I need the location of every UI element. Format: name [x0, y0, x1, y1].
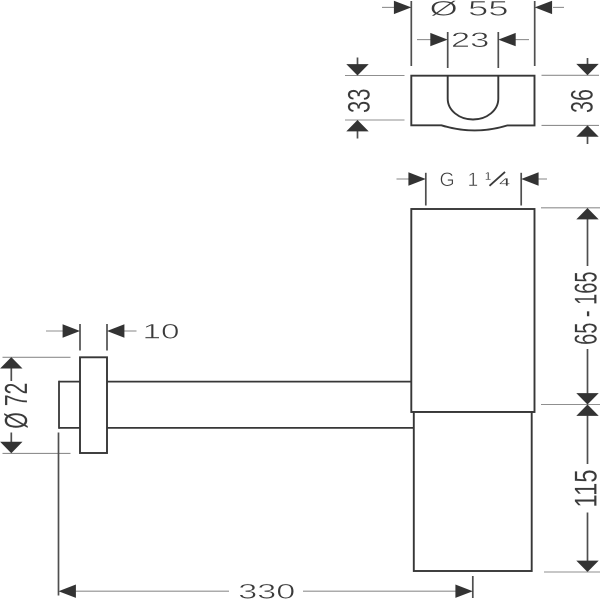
dim D55 arrow right: [535, 1, 552, 14]
dim D10 extension lines: [80, 324, 107, 351]
dim D55 dimension line tails: [382, 6, 564, 8]
dim D330 extension line left: [58, 433, 60, 596]
dim D330 arrow right: [455, 585, 472, 598]
dim D33 arrow bottom: [346, 120, 368, 131]
dim D36 extension lines: [542, 75, 600, 125]
dim D65165 arrow bottom: [576, 393, 598, 404]
dim D55 arrow left: [394, 1, 411, 14]
tube T1 vertical body upper: [411, 209, 534, 412]
dim D115 arrow top: [576, 405, 598, 416]
svg-text:23: 23: [451, 29, 490, 52]
cup C1 trap cup lower: [414, 412, 532, 571]
svg-text:330: 330: [238, 580, 295, 600]
dim D36 arrow bottom: [576, 125, 598, 136]
dim D72 extension lines: [3, 357, 71, 453]
svg-text:1: 1: [485, 171, 492, 183]
dim D115 dimension line segments: [587, 415, 589, 561]
dim D55 extension lines: [411, 1, 534, 66]
dim D65165 arrow top: [576, 208, 598, 219]
svg-text:115: 115: [568, 469, 600, 507]
dim D65165 extension line top: [541, 207, 600, 209]
dim D72 arrow bottom: [0, 442, 22, 453]
dim D10 arrow right: [107, 324, 124, 337]
svg-text:4: 4: [499, 177, 511, 189]
dim D65165 dimension line segments: [587, 219, 589, 394]
dim G114 arrow right: [521, 172, 538, 185]
dim D33 arrow tails: [357, 58, 359, 139]
svg-text:G: G: [440, 169, 455, 191]
dim G114 arrow left: [408, 172, 425, 185]
dim D115 extension line bottom: [544, 571, 600, 573]
dim D33 extension lines: [345, 76, 405, 121]
dim D65165 extension line bottom pipe axis: [541, 404, 600, 406]
dim D10 dimension line tails: [46, 330, 137, 332]
svg-text:33: 33: [342, 89, 377, 114]
dim D72 arrow top: [0, 357, 22, 368]
svg-text:65 - 165: 65 - 165: [568, 272, 600, 345]
dim D115 arrow bottom: [576, 561, 598, 572]
dim D23 arrow right: [498, 33, 515, 46]
rosette R1 outline top view: [411, 76, 534, 131]
dim D330 extension line right: [472, 576, 474, 598]
dim D330 dimension line segments: [75, 590, 456, 592]
svg-text:10: 10: [143, 321, 180, 344]
dim D10 arrow left: [63, 324, 80, 337]
svg-text:Ø 55: Ø 55: [430, 0, 509, 21]
svg-text:1: 1: [468, 169, 479, 191]
svg-text:36: 36: [565, 89, 600, 113]
pipe P1 horizontal outlet pipe: [59, 381, 414, 429]
dim G114 dimension line tails: [397, 178, 548, 180]
flange F1 wall flange plate: [80, 357, 107, 453]
dim D33 arrow top: [346, 64, 368, 75]
dim G114 label fraction slash: [490, 172, 506, 186]
dim D36 arrow top: [576, 64, 598, 75]
dim D72 dimension line segments: [10, 368, 12, 443]
rosette R1 U-shaped cutout: [448, 76, 499, 120]
dim D23 dimension line tails: [417, 39, 529, 41]
dim D23 extension lines: [448, 32, 499, 68]
dim G114 extension lines: [426, 173, 521, 206]
dim D36 arrow tails: [587, 58, 589, 144]
dim D23 arrow left: [430, 33, 447, 46]
dim D330 arrow left: [59, 585, 76, 598]
svg-text:Ø 72: Ø 72: [0, 383, 34, 429]
